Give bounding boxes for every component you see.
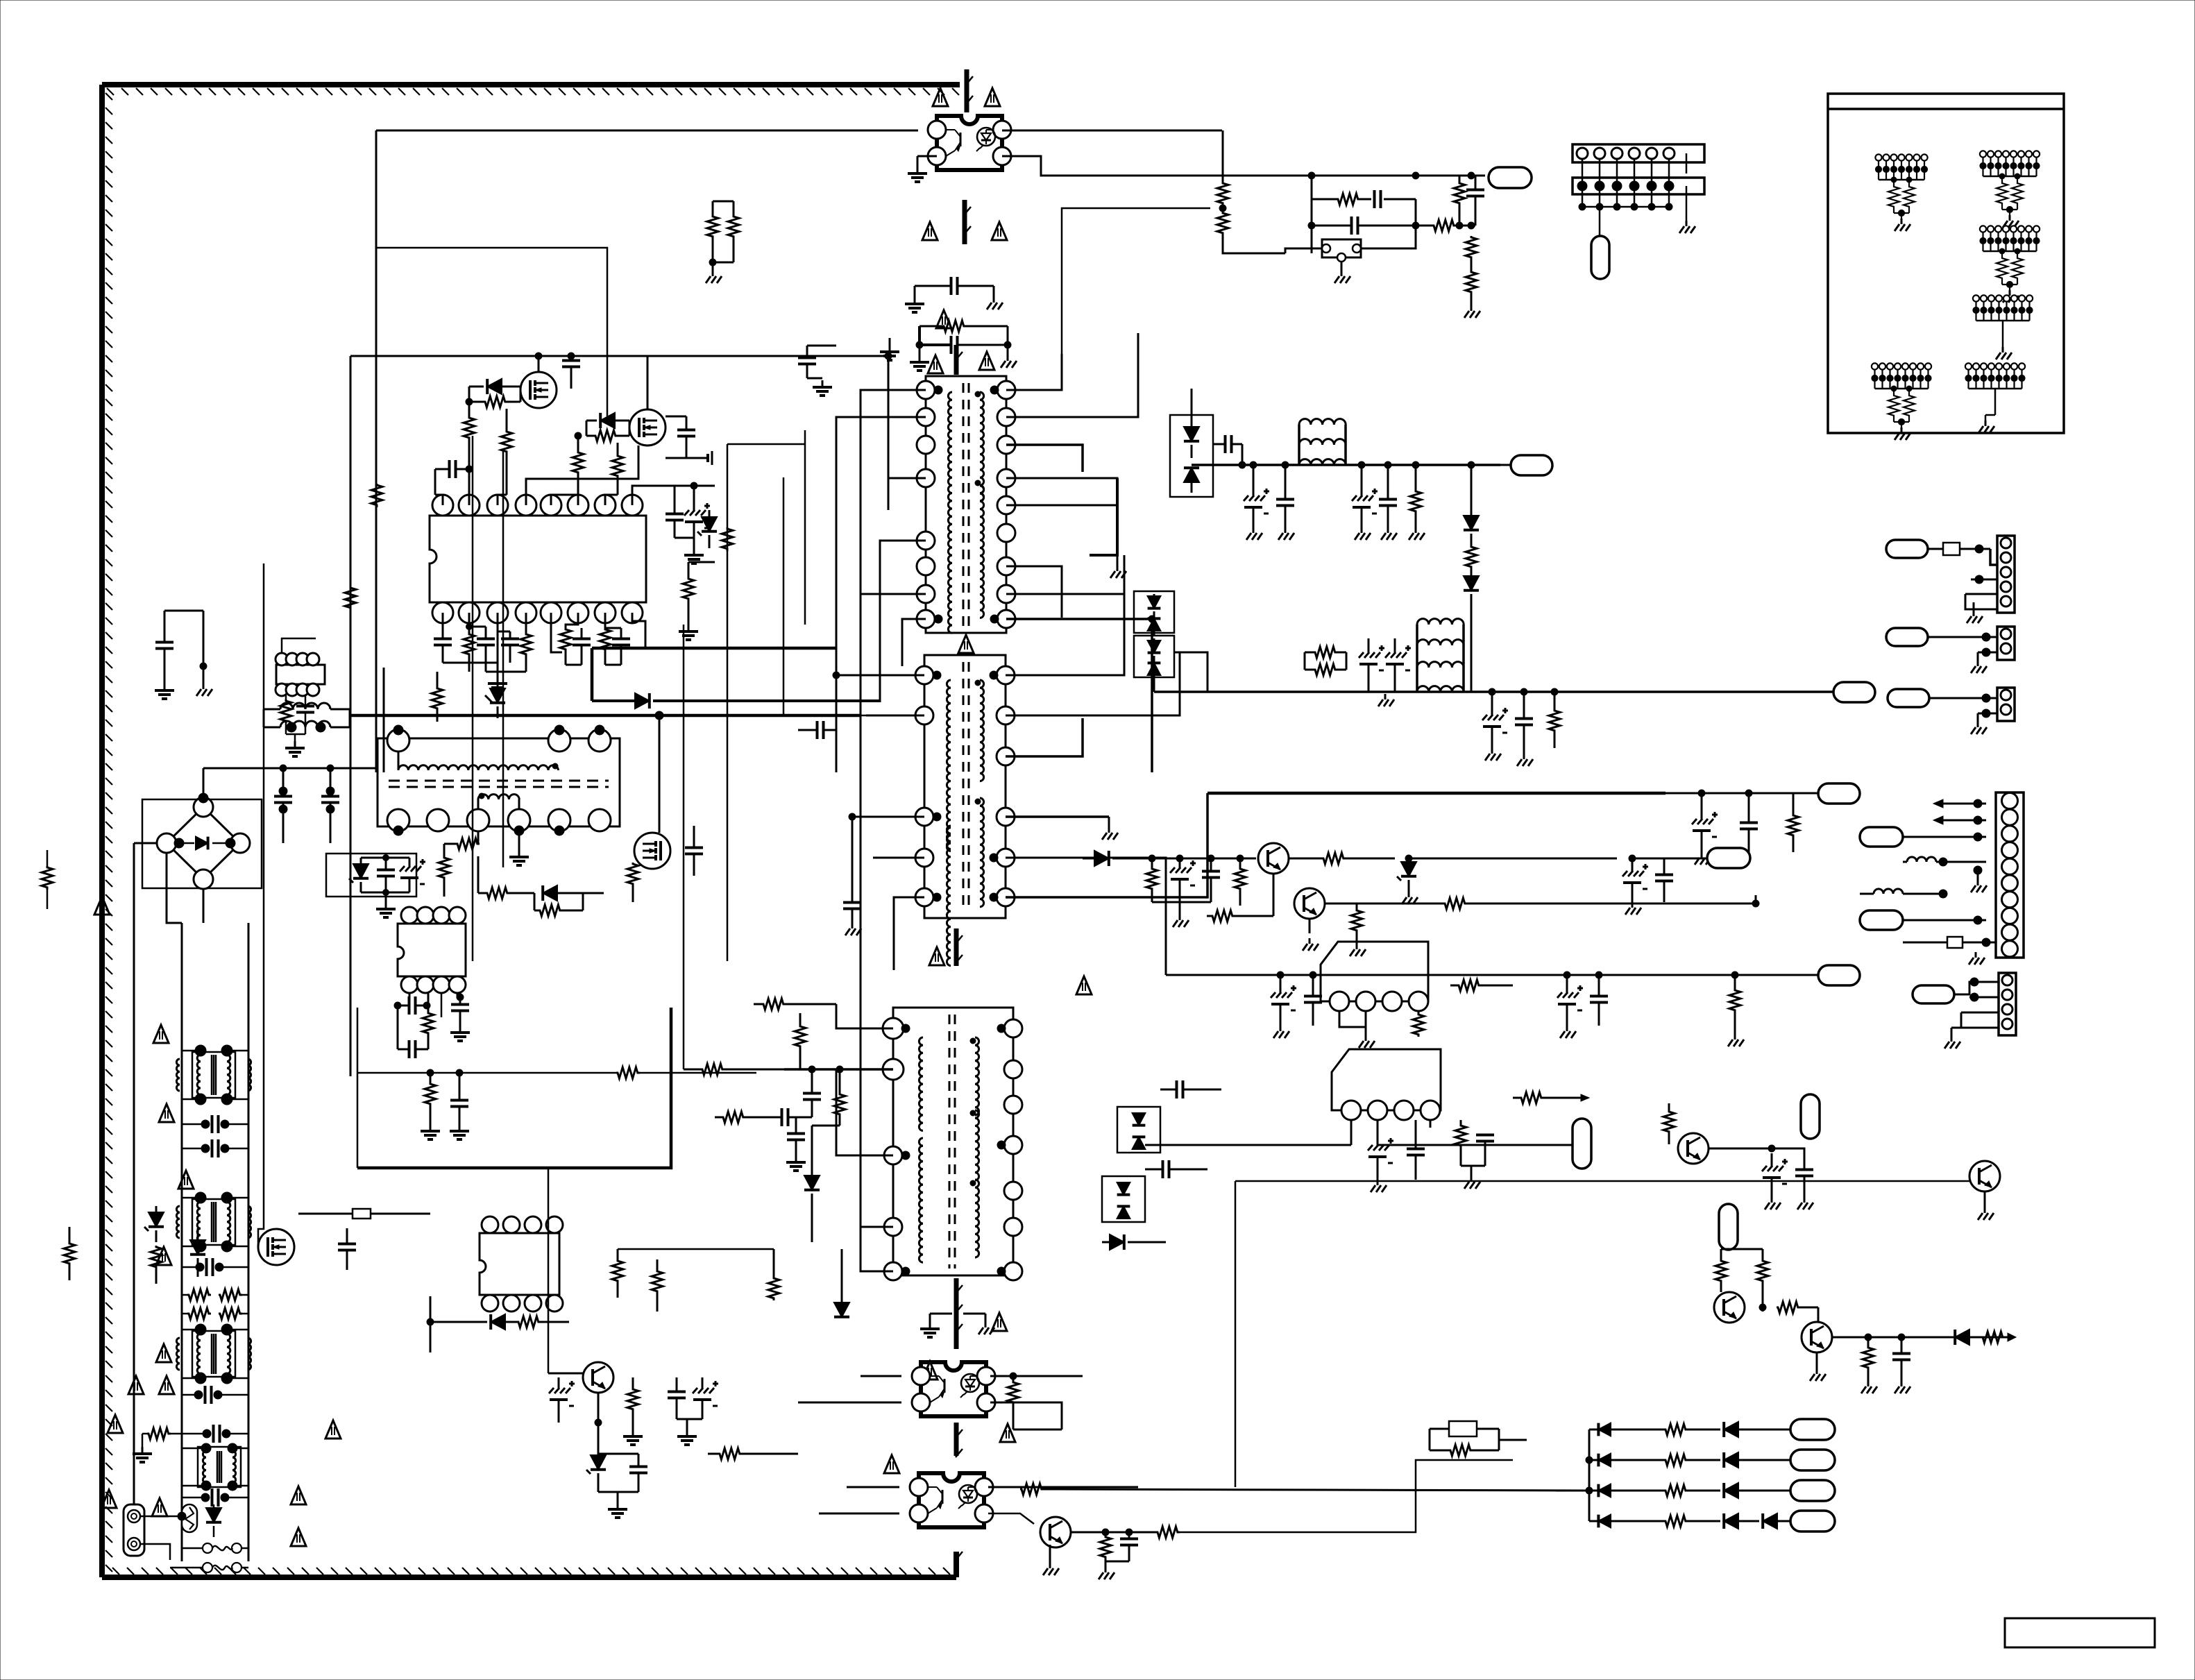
- ferrite bead FB2 square: [1928, 543, 1990, 555]
- wire U1 pin3: [498, 495, 507, 505]
- transformer T1b polarity dots: [933, 671, 998, 901]
- IC U2 body: [398, 924, 466, 976]
- warning symbol near F2: [291, 1486, 306, 1504]
- transformer T2 secondary pins: [1004, 1019, 1022, 1280]
- resistor array RA2 in detail box: [1980, 151, 2040, 228]
- warning symbol right of RC network: [979, 352, 994, 370]
- electrolytic C59 under U5: [1368, 1138, 1393, 1192]
- IC U3 bottom pins: [482, 1295, 563, 1312]
- resistor R54 under Q20: [623, 1377, 643, 1445]
- wire: [1153, 633, 1155, 636]
- resistor R61: [1466, 545, 1477, 576]
- capacitor C16: [466, 624, 495, 672]
- ground CN2 bottom: [1967, 930, 1985, 965]
- wire T1 sec pin8: [1006, 619, 1152, 772]
- wire U1 pin12: [525, 613, 527, 633]
- isolation barrier mark top: [966, 69, 973, 112]
- ground under R1: [706, 262, 722, 283]
- wire: [1062, 1429, 1450, 1430]
- wire T1 pin2 left: [836, 417, 926, 772]
- capacitor C24b to ground: [450, 1073, 469, 1139]
- wire to CN4: [1928, 636, 1997, 638]
- capacitor C62 at D30: [1160, 1080, 1221, 1098]
- wire T1 sec pin4: [1006, 478, 1117, 496]
- warning symbol near C24: [159, 1104, 174, 1122]
- warning symbol near barrier6: [1000, 1424, 1015, 1442]
- wire to C53: [1409, 858, 1617, 860]
- diode D13: [543, 885, 583, 901]
- wire: [2000, 1048, 2054, 1176]
- wire PC3 pin1 left: [847, 1486, 899, 1488]
- wire top filter rail: [203, 767, 376, 770]
- warning symbol near LF3: [156, 1344, 171, 1362]
- warning symbol near barrier2 left: [922, 222, 938, 240]
- wire: [425, 881, 444, 907]
- net label pill Q10 out: [1707, 848, 1750, 868]
- wire CN6 pin3: [1961, 1012, 1999, 1014]
- wire: [350, 718, 376, 719]
- wire T1b pin3 left: [852, 816, 924, 818]
- wire T1b sec5: [1006, 858, 1166, 975]
- wire: [1138, 333, 1192, 389]
- transformer T1 outline: [926, 376, 1006, 633]
- warning symbol right of C27: [159, 1376, 174, 1394]
- isolation barrier mark 4 below T1b: [956, 928, 963, 966]
- wire L1 left tie: [263, 709, 265, 727]
- ground at U101: [1334, 262, 1350, 283]
- wire T2 pin3 left: [836, 1069, 893, 1155]
- diode D43 row4: [1688, 1513, 1738, 1529]
- wire U4 pin2 gnd: [1365, 1011, 1367, 1027]
- wire: [227, 1050, 248, 1052]
- wire: [477, 844, 479, 893]
- optocoupler PC1: [928, 116, 1011, 170]
- capacitor C37: [668, 1377, 686, 1419]
- bridge rectifier DB1: [157, 793, 250, 889]
- transformer T1 secondary winding upper: [980, 392, 984, 501]
- wire: [568, 1322, 570, 1352]
- transformer T1b core: [963, 662, 969, 911]
- resistor R71 at U4: [1413, 1011, 1424, 1037]
- resistor R104: [1432, 220, 1456, 231]
- wire T1 pin5 left: [880, 541, 926, 702]
- wire U1 pin13: [551, 613, 562, 652]
- wire T1b sec4 to ground: [1006, 815, 1109, 818]
- diode D43b row4: [1738, 1513, 1790, 1529]
- IC U6 body: [276, 665, 325, 684]
- diode D42 row3: [1688, 1483, 1738, 1498]
- wire: [227, 1098, 248, 1101]
- net label pill CN2 b: [1860, 910, 1903, 930]
- wire CN4 pin2: [1978, 652, 1997, 654]
- wire output rail 1: [1192, 464, 1500, 466]
- isolation barrier mark 5 above opto PC2: [956, 1278, 963, 1349]
- wire fb left: [1311, 199, 1313, 253]
- IC U1 bottom pins: [432, 602, 643, 623]
- IC U3 body: [480, 1233, 559, 1295]
- wire: [1738, 1459, 1790, 1461]
- ground U4: [1359, 1027, 1375, 1048]
- wire T1b pin2 left: [866, 715, 924, 717]
- wire: [548, 1168, 550, 1373]
- resistor R102: [1217, 212, 1228, 235]
- wire: [232, 1485, 248, 1487]
- capacitor C40 beside D20: [1213, 435, 1242, 465]
- resistor R67: [1322, 853, 1395, 864]
- wire: [227, 1246, 248, 1248]
- net label pill vertical Q12: [1801, 1094, 1820, 1139]
- wire CN3 pin5: [1965, 594, 1997, 609]
- resistor R15: [612, 443, 623, 495]
- wire: [383, 668, 385, 772]
- transformer T1b primary pins: [915, 666, 933, 906]
- dual diode package D27: [1134, 636, 1174, 677]
- capacitor C32 at T2 left: [803, 1066, 821, 1117]
- arrow out CN2 pin1: [1933, 799, 1986, 808]
- wire: [1512, 909, 1514, 985]
- capacitor C13 and electrolytic C14 at U1 VCC: [666, 482, 715, 563]
- wire heavy drop: [591, 648, 594, 701]
- capacitor C22 feedback: [398, 1006, 428, 1058]
- warning symbol row bottom: [325, 1420, 341, 1439]
- capacitor C44: [1379, 461, 1397, 540]
- capacitor C48 rail2: [1515, 688, 1533, 748]
- transformer T1b secondary pins: [997, 666, 1015, 906]
- warning symbol near top barrier left: [933, 88, 948, 106]
- capacitor C54: [1655, 858, 1673, 902]
- electrolytic C45: [1359, 638, 1384, 692]
- wire Q2 drain: [647, 356, 649, 409]
- connector CN6 4-pin: [1999, 973, 2016, 1035]
- wire PC1 pin4 to sense rail: [1002, 156, 1485, 176]
- transformer T1 secondary pins: [997, 381, 1015, 628]
- capacitor C65 Q12: [1795, 1153, 1813, 1210]
- resistor array RA1 in detail box: [1875, 154, 1927, 231]
- wire: [1013, 1429, 1062, 1431]
- warning symbol above T2: [1076, 976, 1092, 994]
- wire CN3 pin2 link: [1990, 549, 1997, 565]
- zener D22 under Q20: [586, 1393, 606, 1492]
- wire fb right: [1415, 199, 1417, 226]
- diode D24: [1464, 465, 1479, 545]
- wire Q17 out: [1832, 1337, 2012, 1339]
- wire: [227, 1197, 248, 1199]
- net label pill vertical rail5: [1573, 1119, 1591, 1169]
- resistor R27 h: [478, 888, 534, 899]
- electrolytic C57 mid rail4: [1557, 971, 1583, 1038]
- transistor Q10: [1258, 843, 1289, 874]
- inductor L2 triple: [1299, 419, 1346, 465]
- wire T1 sec pin3: [1006, 445, 1083, 472]
- resistor R83 to gnd: [1861, 1334, 1877, 1393]
- transformer T1 core: [963, 383, 969, 626]
- wire T1b pin4 left: [873, 857, 924, 859]
- wire: [632, 478, 836, 480]
- wire: [1471, 260, 1473, 271]
- warning symbol left of C27: [128, 1376, 144, 1394]
- transformer T3 outline: [378, 738, 620, 826]
- wire: [783, 715, 866, 717]
- resistor R52 to ground: [1099, 1529, 1115, 1579]
- warning symbol left of barrier4: [929, 947, 944, 965]
- wire: [1144, 1145, 1146, 1153]
- net label pill CN2 a: [1860, 827, 1903, 847]
- ground pair above T1: [880, 338, 899, 360]
- transformer T2 secondary winding low: [975, 1180, 979, 1257]
- diode D17 with resistor R33: [427, 1314, 569, 1330]
- zener D29: [1397, 855, 1418, 904]
- transformer T3 core: [389, 781, 609, 787]
- capacitor C1 with dual ground: [155, 611, 212, 699]
- ground under U1 pin11: [443, 663, 526, 692]
- resistor R28 parallel D13: [534, 893, 604, 916]
- wire: [1416, 225, 1432, 227]
- wire D27 out: [1174, 652, 1207, 692]
- resistor R81: [1757, 1249, 1768, 1312]
- capacitor C11: [435, 460, 473, 495]
- pin group PG4 in detail box: [1973, 295, 2033, 359]
- wire: [430, 1296, 432, 1352]
- capacitor C9 under U6: [286, 695, 314, 734]
- warning symbol near TH1: [152, 1498, 167, 1516]
- capacitor C60 under U5: [1407, 1120, 1425, 1180]
- connector CN101 pin header top: [1573, 144, 1704, 210]
- resistor R91 row2: [1589, 1454, 1688, 1466]
- ground Q17: [1810, 1352, 1826, 1381]
- ground left of barrier5: [920, 1314, 952, 1337]
- wire rail drop to T1 pin4: [888, 356, 890, 478]
- diode D19 in bulk path: [592, 693, 880, 709]
- common-mode choke LF1: [176, 1045, 251, 1105]
- wire: [227, 1377, 248, 1380]
- wire T2 pin4 left: [861, 1226, 893, 1228]
- wire output rail 4: [1166, 974, 1818, 976]
- resistor R106: [1466, 236, 1477, 260]
- capacitor C30 at T1b left: [798, 675, 836, 739]
- wire output rail 2: [1154, 690, 1833, 693]
- wire: [182, 1246, 201, 1248]
- zener D15 left of Q6: [144, 1206, 164, 1242]
- wire: [1153, 677, 1155, 692]
- transistor Q12: [1678, 1133, 1709, 1164]
- capacitor C21 feedback: [394, 996, 430, 1015]
- warning symbol left of barrier3: [928, 355, 943, 373]
- net label pill CN4 source: [1886, 628, 1928, 646]
- transformer T3 secondary winding: [478, 793, 519, 820]
- wire DB1 minus down: [203, 889, 205, 923]
- capacitor C42 rail1: [1276, 461, 1294, 540]
- resistor R74 and cap C61 at U5 out: [1430, 1120, 1494, 1189]
- wire CN3 pin3: [1971, 579, 1997, 581]
- diode D10 at Q1 gate: [469, 379, 520, 394]
- dual diode package D26: [1134, 591, 1174, 633]
- diode D40 row1: [1688, 1422, 1738, 1437]
- wire T2 pin2 left heavy: [784, 1068, 893, 1071]
- wire: [1686, 153, 1688, 173]
- wire: [1273, 903, 1294, 904]
- transformer T1b secondary winding lower: [980, 798, 984, 907]
- wire: [477, 856, 480, 893]
- wire R102 bottom to shunt reg: [1223, 235, 1285, 253]
- wire PC1 pin3 right: [1002, 130, 1222, 132]
- wire: [182, 1377, 201, 1380]
- wire upper loop to Q2 gate: [376, 248, 607, 421]
- wire: [1745, 1307, 1763, 1308]
- resistor R92 row3: [1589, 1485, 1688, 1496]
- wire: [250, 772, 291, 843]
- wire: [1082, 472, 1083, 718]
- transistor Q18 below PC3 right: [1040, 1517, 1071, 1575]
- wire vertical bus x505: [350, 356, 352, 1076]
- resistor R19 and cap C18 parallel: [560, 613, 591, 665]
- transformer T2 core: [949, 1015, 955, 1269]
- wire: [683, 479, 684, 625]
- wire: [783, 477, 785, 715]
- capacitor C23 right of Q6: [338, 1228, 356, 1270]
- IC U6 top pins: [276, 653, 319, 665]
- wire PC3 pin4 right: [988, 1486, 1138, 1488]
- resistor R11: [464, 398, 475, 486]
- wire: [376, 719, 398, 730]
- wire: [166, 853, 167, 923]
- wire T1 sec top: [1006, 354, 1062, 390]
- wire Q11 collector: [1325, 903, 1443, 905]
- wire fb to rail: [1311, 176, 1313, 199]
- wire to U101 anode: [1285, 248, 1322, 253]
- ground CN4: [1971, 652, 1987, 673]
- wire T1 sec pin2: [1006, 333, 1138, 417]
- electrolytic C46: [1368, 638, 1411, 692]
- wire: [548, 1311, 901, 1312]
- wire T1b pin5 left: [894, 897, 924, 970]
- wire: [1459, 175, 1475, 176]
- capacitor C105: [1466, 176, 1484, 226]
- wire long vertical B: [683, 625, 685, 1069]
- warning symbol right of barrier5: [992, 1313, 1007, 1331]
- transformer T3 bottom pins: [387, 809, 611, 835]
- diode bank left diodes: [1598, 1423, 1611, 1528]
- net label pill vertical CN101: [1591, 236, 1609, 279]
- wire T1 sec pin6: [1006, 566, 1062, 618]
- electrolytic C47 rail2: [1482, 688, 1508, 761]
- resistor R36 to chassis left: [133, 1428, 182, 1462]
- capacitor CY1 between grounds: [905, 277, 1003, 312]
- zener diode D14 cluster: [326, 854, 425, 917]
- wire: [203, 889, 248, 923]
- wire: [1418, 1037, 1419, 1048]
- resistor R31: [64, 1227, 75, 1280]
- resistor R16 at U1 right: [683, 562, 715, 613]
- wire net A to PC1 pin1: [376, 130, 918, 132]
- IC U2 bottom pins: [401, 976, 466, 993]
- wire feedback net x681: [472, 436, 474, 961]
- net label pill row3: [1790, 1480, 1835, 1501]
- wire: [182, 1485, 206, 1487]
- diode D33 with resistor R84: [1955, 1330, 2016, 1345]
- wire T3 pin1 to winding: [398, 752, 400, 770]
- ground under rail2 group: [1517, 748, 1533, 766]
- wire net x725: [502, 451, 505, 867]
- warning symbol W1 on left border: [94, 897, 110, 915]
- capacitor C104 feedback: [1312, 217, 1416, 235]
- resistor R13 Q2 gate: [586, 421, 629, 441]
- resistor R70: [1443, 898, 1756, 909]
- thermistor TH1: [182, 1504, 197, 1532]
- capacitor C27 X-cap pair: [182, 1386, 248, 1404]
- resistor R73 rail4: [1728, 971, 1744, 1046]
- resistor R2 with capacitor C2 parallel between grounds: [910, 321, 1017, 371]
- wire: [182, 1448, 206, 1450]
- wire vertical x515: [357, 1008, 359, 1168]
- isolation barrier mark 2: [964, 200, 971, 244]
- electrolytic C38: [677, 1377, 718, 1445]
- transformer T3 top pins: [387, 725, 611, 752]
- wire T1 pin7 left: [861, 593, 926, 595]
- wire Q18 net to diode rows: [1180, 1460, 1513, 1532]
- resistor R35 discharge pair row2: [182, 1308, 248, 1319]
- dual diode package D20: [1170, 415, 1213, 497]
- wire: [1083, 1376, 1430, 1429]
- wire CN6 pin4: [1961, 1012, 1999, 1028]
- transformer T1 polarity dots: [934, 386, 999, 623]
- capacitor C24 series pair: [182, 1115, 248, 1133]
- IC U1 body: [430, 516, 646, 602]
- wire B+ bus heavy: [350, 714, 861, 718]
- wire: [409, 892, 410, 907]
- IC U6 bottom pins: [276, 684, 319, 696]
- wire: [477, 831, 480, 844]
- transformer T2 primary winding lower: [919, 1138, 923, 1262]
- ground CN2 mid: [1971, 866, 1996, 892]
- resistor R22 in x543 line: [371, 484, 382, 507]
- MOSFET Q1: [520, 372, 557, 408]
- warning symbol near top barrier right: [985, 88, 1000, 106]
- wire: [1285, 248, 1322, 253]
- transformer T2 primary winding upper: [919, 1037, 923, 1130]
- fuse F1: [182, 1543, 248, 1553]
- capacitor C25 series pair: [182, 1139, 248, 1157]
- wire: [457, 893, 478, 907]
- warning symbol above RC network: [936, 310, 951, 328]
- diode D32 under D31: [1102, 1234, 1166, 1250]
- fuse small box FB1: [298, 1209, 430, 1219]
- transformer T1b secondary winding upper: [980, 680, 984, 781]
- wire output rail 3 heavy: [1207, 792, 1666, 795]
- wire Q20 base rail: [548, 1373, 583, 1375]
- wire: [240, 791, 298, 833]
- diode D18 bottom left: [206, 1504, 221, 1537]
- transformer T1 primary pins: [917, 381, 935, 628]
- capacitor C28 with dots: [182, 1425, 248, 1443]
- resistor R14: [573, 432, 584, 495]
- resistor R90 row1: [1589, 1424, 1688, 1435]
- transistor Q13: [1969, 1161, 2000, 1191]
- transformer T1 primary winding: [935, 390, 952, 633]
- wire U2 pin5: [398, 993, 409, 1006]
- optocoupler PC2: [912, 1362, 995, 1416]
- wire U1 pin8: [632, 486, 672, 505]
- wire T1b sec1: [1006, 555, 1124, 675]
- wire: [232, 1448, 248, 1450]
- electrolytic C49 rail3: [1692, 793, 1718, 865]
- transformer T1b outline: [924, 655, 1006, 918]
- wire PC3 to Q13 net: [1235, 1181, 1237, 1487]
- wire: [1082, 808, 1083, 858]
- net label pill VSEN: [1489, 167, 1532, 188]
- chassis ground stub right of Q2: [686, 451, 712, 465]
- resistor array RA3 in detail box: [1980, 226, 2040, 303]
- wire: [559, 752, 600, 770]
